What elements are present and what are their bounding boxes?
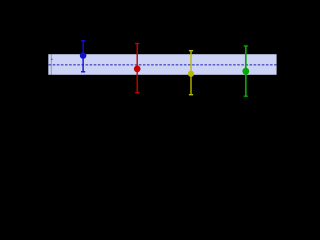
average band (48, 54, 276, 75)
blue point marker (80, 52, 87, 59)
dashed center line (49, 64, 277, 66)
blue point top cap (81, 40, 85, 42)
red point top cap (135, 43, 139, 45)
red point marker (134, 66, 141, 73)
yellow point bottom cap (189, 94, 193, 96)
green point bottom cap (244, 95, 248, 97)
green point marker (242, 68, 249, 75)
axis frame left edge (47, 30, 49, 110)
blue point error bar (82, 41, 84, 72)
red point bottom cap (135, 92, 139, 94)
red point error bar (136, 44, 138, 93)
yellow point top cap (189, 50, 193, 52)
yellow point marker (188, 71, 194, 77)
yellow point error bar (190, 51, 192, 95)
green point error bar (245, 46, 247, 96)
blue point bottom cap (81, 71, 85, 73)
average point (black) marker (51, 59, 53, 60)
green point top cap (244, 45, 248, 47)
average point (black) error bar (50, 50, 52, 78)
